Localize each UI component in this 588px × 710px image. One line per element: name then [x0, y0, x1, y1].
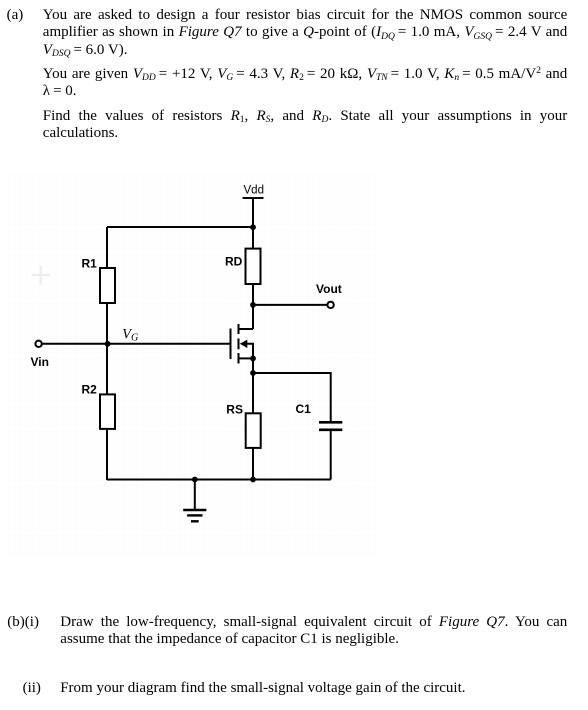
node junction VG [105, 341, 111, 347]
wire Vout lead [253, 304, 327, 306]
paragraph a3 [43, 108, 568, 143]
svg-text:Vout: Vout [316, 282, 342, 296]
svg-text:C1: C1 [296, 402, 312, 416]
resistor RS [246, 413, 261, 448]
node junction top rail [250, 224, 256, 230]
faint guide cross [32, 266, 51, 285]
svg-text:Vdd: Vdd [244, 185, 264, 197]
transistor body arrow [240, 340, 248, 348]
wire source column [252, 358, 254, 413]
svg-text:RD: RD [225, 255, 243, 269]
question (a) label [7, 7, 24, 24]
node junction RS bottom [250, 477, 256, 483]
wire Vdd stem [252, 198, 254, 227]
wire top rail [107, 226, 253, 228]
resistor RD [246, 249, 261, 284]
paragraph b2 [60, 680, 585, 697]
paragraph a1 [43, 7, 568, 59]
power symbol Vdd bar [243, 197, 264, 199]
wire C1 branch [253, 373, 331, 421]
question (b)(i) label [7, 614, 39, 631]
svg-text:R1: R1 [82, 257, 98, 271]
wire gate lead [42, 343, 231, 345]
paragraph a2 [43, 66, 568, 101]
wire RS bottom [252, 448, 254, 480]
svg-text:VG: VG [122, 327, 139, 344]
node junction C1 branch [250, 370, 256, 376]
terminal Vout [327, 302, 333, 308]
wire bottom rail [107, 479, 331, 481]
capacitor C1 [319, 422, 342, 430]
ground [183, 480, 206, 522]
node junction ground [192, 477, 198, 483]
wire C1 bottom [330, 431, 332, 480]
wire left branch (R1/R2 column) [106, 227, 108, 480]
svg-text:R2: R2 [82, 383, 98, 397]
terminal Vin [35, 341, 41, 347]
node junction source [250, 356, 256, 362]
node junction drain/Vout [250, 302, 256, 308]
svg-text:Vin: Vin [31, 355, 49, 369]
wire drain column [252, 227, 254, 329]
paragraph b1 [60, 614, 567, 649]
transistor Q1 NMOS [231, 324, 254, 364]
faint drawing grid [8, 175, 380, 556]
question (ii) label [23, 680, 41, 697]
svg-text:RS: RS [226, 403, 243, 417]
resistor R2 [100, 394, 115, 429]
resistor R1 [100, 268, 115, 303]
